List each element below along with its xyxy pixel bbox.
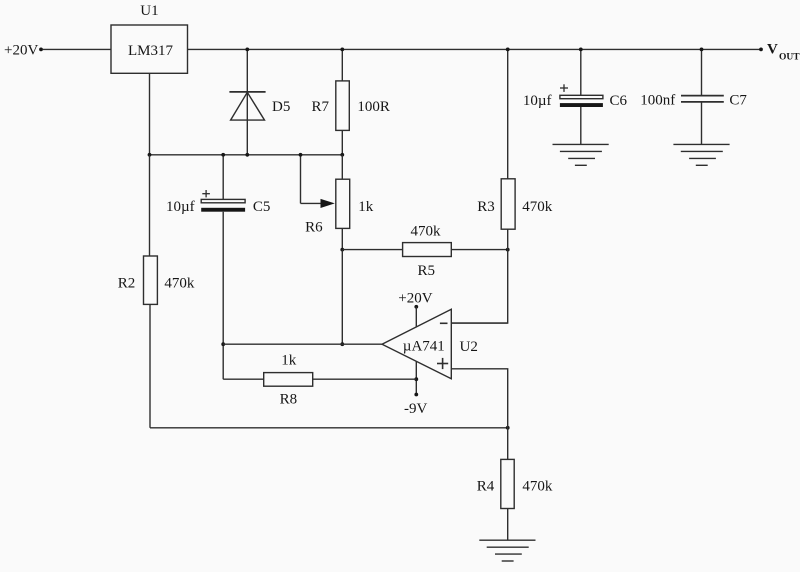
svg-text:R5: R5 <box>418 263 436 279</box>
svg-text:OUT: OUT <box>779 53 800 63</box>
svg-text:+20V: +20V <box>398 290 432 306</box>
svg-text:10µf: 10µf <box>523 93 552 109</box>
capacitor C5 10uf <box>166 155 270 215</box>
svg-text:1k: 1k <box>358 199 374 215</box>
resistor R7 100R <box>312 49 390 154</box>
svg-text:470k: 470k <box>522 199 553 215</box>
svg-text:µA741: µA741 <box>403 338 445 354</box>
svg-text:470k: 470k <box>411 224 442 240</box>
node C5 top <box>221 153 225 157</box>
resistor R4 470k <box>477 428 553 540</box>
svg-text:R7: R7 <box>312 99 330 115</box>
svg-text:470k: 470k <box>164 276 195 292</box>
svg-text:470k: 470k <box>522 479 553 495</box>
wire <box>451 250 507 324</box>
node R6 wiper tap <box>299 153 303 157</box>
supply -9V <box>404 361 427 417</box>
wire <box>341 250 343 345</box>
capacitor C7 100nf <box>640 49 747 144</box>
resistor R5 470k <box>342 224 507 279</box>
svg-text:V: V <box>767 41 778 57</box>
wire <box>451 369 507 428</box>
svg-text:R4: R4 <box>477 479 495 495</box>
wire <box>222 212 224 380</box>
svg-text:R3: R3 <box>477 199 495 215</box>
svg-text:R8: R8 <box>280 391 298 407</box>
node C7 top <box>700 48 704 52</box>
op-amp U2 uA741 <box>382 309 478 379</box>
node +20V input <box>4 43 43 59</box>
wire <box>150 427 508 429</box>
resistor R8 1k <box>223 353 416 408</box>
svg-text:+20V: +20V <box>4 43 38 59</box>
supply +20V <box>398 290 432 327</box>
capacitor C6 10uf <box>523 49 628 144</box>
ground <box>673 144 729 165</box>
svg-text:1k: 1k <box>281 353 297 369</box>
regulator U1 LM317 <box>111 3 188 73</box>
resistor R2 470k <box>118 155 195 428</box>
node R6 bottom <box>340 248 344 252</box>
node Vout <box>759 41 800 62</box>
svg-text:C7: C7 <box>729 93 747 109</box>
node R7 bottom <box>340 153 344 157</box>
diode D5 <box>229 49 290 154</box>
svg-text:100R: 100R <box>357 99 390 115</box>
svg-text:D5: D5 <box>272 99 290 115</box>
wire <box>149 73 151 155</box>
node C5 lead / output junction <box>221 342 225 346</box>
svg-text:R6: R6 <box>305 220 323 236</box>
svg-text:-9V: -9V <box>404 401 427 417</box>
wire <box>43 48 112 50</box>
svg-text:LM317: LM317 <box>128 43 174 59</box>
node bottom junction <box>506 426 510 430</box>
svg-text:100nf: 100nf <box>640 93 675 109</box>
wire <box>188 48 762 50</box>
node adj junction <box>148 153 152 157</box>
wire <box>451 322 507 324</box>
wire <box>150 154 343 156</box>
wire <box>223 343 382 345</box>
node output junction <box>340 342 344 346</box>
node D5 bottom <box>245 153 249 157</box>
ground <box>479 540 535 561</box>
node R7 top <box>340 48 344 52</box>
node D5 top <box>245 48 249 52</box>
svg-text:R2: R2 <box>118 276 136 292</box>
resistor R3 470k <box>477 49 552 249</box>
node C6 top <box>579 48 583 52</box>
svg-text:C5: C5 <box>253 199 271 215</box>
node R5 right / R3 bottom <box>506 248 510 252</box>
node R3 top <box>506 48 510 52</box>
potentiometer R6 1k <box>301 155 374 250</box>
svg-text:U1: U1 <box>140 3 158 19</box>
svg-text:10µf: 10µf <box>166 199 195 215</box>
ground <box>553 144 609 165</box>
svg-text:C6: C6 <box>610 93 628 109</box>
svg-text:U2: U2 <box>460 339 478 355</box>
